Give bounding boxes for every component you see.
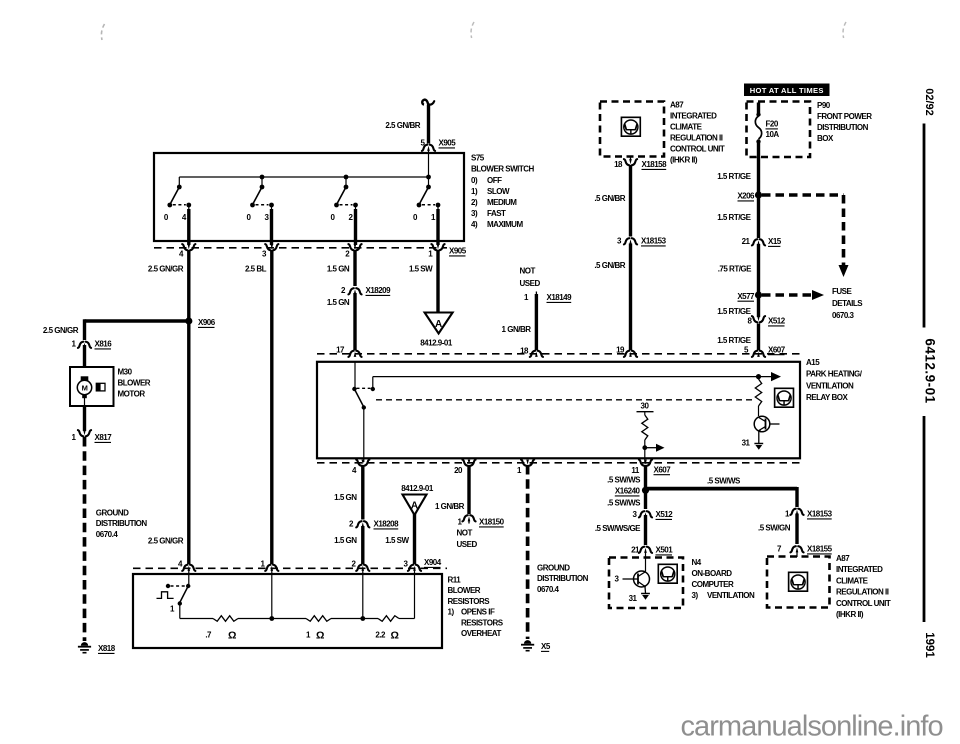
sidebar rule lower [923,416,926,622]
svg-text:8412.9-01: 8412.9-01 [401,484,434,493]
A15 internal wire from contact to transistor arrow [372,377,374,389]
connector A15 pin 20 [462,460,475,466]
A15 top connector row dashed [317,353,800,355]
junction X16240 [642,487,649,494]
svg-text:S75: S75 [471,154,485,163]
blower motor M30 box [70,367,114,406]
svg-text:1.5 GN: 1.5 GN [334,536,357,545]
svg-text:10A: 10A [766,130,780,139]
switch contact unit pin 2 of S75 [331,177,358,245]
svg-text:17: 17 [336,345,345,354]
connector X905 pin 3 [265,244,278,250]
svg-text:INTEGRATED: INTEGRATED [836,565,883,574]
connector X18208 [356,521,369,527]
R11 pin1 wire into rail [271,568,273,619]
svg-text:X816: X816 [95,340,113,349]
svg-text:X607: X607 [654,465,672,474]
svg-text:RELAY BOX: RELAY BOX [806,393,848,402]
svg-text:OVERHEAT: OVERHEAT [461,629,501,638]
A15 relay icon [775,388,794,407]
junction X906 [185,317,192,324]
connector X904 pin 3 [408,565,421,571]
R11 pin3 wire into rail [414,568,416,619]
blower switch S75 box [154,153,464,241]
svg-text:0670.4: 0670.4 [537,585,560,594]
svg-text:1): 1) [471,187,478,196]
svg-text:2.5 GN/GR: 2.5 GN/GR [148,537,184,546]
svg-text:ON-BOARD: ON-BOARD [692,569,733,578]
svg-text:OFF: OFF [487,176,502,185]
svg-text:1.5 SW: 1.5 SW [409,265,433,274]
svg-text:VENTILATION: VENTILATION [707,591,755,600]
on-board computer N4 dashed box [609,558,683,609]
svg-text:FAST: FAST [487,209,506,218]
R11 resistor rail + resistors [180,618,213,620]
svg-text:21: 21 [742,237,751,246]
svg-text:1.5 GN: 1.5 GN [327,265,350,274]
svg-text:X18150: X18150 [479,518,505,527]
connector X904 pin 4 [182,565,195,571]
connector A15 pin 11 / X607 [639,460,652,466]
svg-text:Ω: Ω [316,630,324,642]
svg-text:X577: X577 [737,292,755,301]
svg-text:DISTRIBUTION: DISTRIBUTION [537,574,589,583]
svg-text:BLOWER: BLOWER [118,379,151,388]
connector X905 pin 2 [348,244,361,250]
svg-text:31: 31 [629,594,638,603]
svg-text:.5 SW/GN: .5 SW/GN [758,524,791,533]
ground distribution wire from X817 to X818 [83,437,87,641]
wire 1.5 SW from S75 pin 1 [436,250,439,313]
A15 bottom connector row dashed [317,462,800,464]
connector row X905 dashed line [154,247,447,249]
svg-text:PARK HEATING/: PARK HEATING/ [806,370,863,379]
svg-text:SLOW: SLOW [487,187,510,196]
svg-text:A15: A15 [806,358,820,367]
connector X905 pin 5 (feed) [422,145,435,151]
N4 text block [692,558,755,600]
connector X905 pin 1 [431,244,444,250]
svg-text:.5 SW/WS/GE: .5 SW/WS/GE [595,524,641,533]
svg-text:X18149: X18149 [547,293,573,302]
svg-text:DISTRIBUTION: DISTRIBUTION [817,123,869,132]
motor direction flag [96,383,105,391]
svg-text:NOT: NOT [457,529,473,538]
svg-text:X18158: X18158 [642,160,668,169]
connector X904 pin 1 [265,565,278,571]
svg-text:3): 3) [692,591,699,600]
svg-text:.75 RT/GE: .75 RT/GE [718,265,752,274]
N4 emitter to ground [644,587,647,594]
R11 text block [448,576,504,639]
control unit A87 (top) dashed box [600,102,664,157]
X904 connector row dashed [133,567,447,569]
svg-text:X906: X906 [198,318,216,327]
park heating/ventilation relay box A15 [317,362,800,459]
svg-text:A: A [411,501,418,512]
svg-text:R11: R11 [448,576,462,585]
connector X904 pin 2 [356,565,369,571]
svg-text:0670.4: 0670.4 [96,530,119,539]
label NOT USED (X18150) [457,529,478,550]
svg-text:DISTRIBUTION: DISTRIBUTION [96,519,148,528]
svg-text:02/92: 02/92 [923,88,935,116]
dashed arrow from X577 to fuse details [762,293,812,297]
connector X15 [752,239,765,245]
svg-text:21: 21 [631,546,640,555]
dashed branch from X206 to fuse details [762,193,844,197]
svg-text:MOTOR: MOTOR [118,390,146,399]
svg-text:18: 18 [614,160,623,169]
svg-text:1.5 RT/GE: 1.5 RT/GE [717,307,751,316]
svg-text:X18209: X18209 [366,286,392,295]
svg-text:1 GN/BR: 1 GN/BR [435,502,465,511]
svg-text:X905: X905 [439,139,457,148]
svg-text:8412.9-01: 8412.9-01 [420,339,453,348]
switch contact unit pin 4 of S75 [164,177,191,245]
svg-text:18: 18 [520,346,529,355]
svg-text:P90: P90 [817,101,831,110]
svg-text:COMPUTER: COMPUTER [692,580,735,589]
svg-text:BLOWER SWITCH: BLOWER SWITCH [471,165,535,174]
svg-text:X817: X817 [95,433,113,442]
wire from A15 pin 20 to X18150 (not used) [467,465,470,514]
svg-text:20: 20 [454,466,463,475]
svg-text:30: 30 [641,402,650,411]
svg-text:carmanualsonline.info: carmanualsonline.info [681,710,943,742]
connector X816 [78,342,91,348]
svg-text:VENTILATION: VENTILATION [806,381,854,390]
svg-text:BLOWER: BLOWER [448,586,481,595]
svg-text:.5 GN/BR: .5 GN/BR [594,261,625,270]
svg-text:1.5 RT/GE: 1.5 RT/GE [717,336,751,345]
svg-text:2.5 GN/BR: 2.5 GN/BR [385,121,420,130]
svg-text:2.5 BL: 2.5 BL [245,265,267,274]
svg-text:X5: X5 [541,642,551,651]
R11 pin2 wire into rail [362,568,364,619]
connector X501 [639,547,652,553]
connector X817 [78,430,91,436]
svg-text:REGULATION II: REGULATION II [836,588,889,597]
svg-text:CLIMATE: CLIMATE [670,123,703,132]
blower resistors R11 box [133,574,442,648]
svg-text:X206: X206 [737,192,755,201]
connector X512 (P90 column) [752,316,765,322]
wire 1.5 RT/GE from P90 to A15 pin 5 [757,157,760,238]
P90 text block [817,101,872,143]
off-page triangle A (to 8412.9-01) [425,313,453,334]
svg-text:F20: F20 [766,120,779,129]
A87 top text block [670,101,725,165]
svg-text:0670.3: 0670.3 [832,311,855,320]
svg-text:RESISTORS: RESISTORS [448,597,491,606]
wire branch to blower motor [85,319,191,322]
junction X577 [755,291,762,298]
junction X206 [755,191,762,198]
wire .5 SW/WS right branch down [795,487,798,507]
svg-text:INTEGRATED: INTEGRATED [670,112,717,121]
A15 relay coil [755,379,761,406]
front power distribution box P90 dashed box [747,102,811,158]
svg-text:Ω: Ω [391,630,399,642]
wire 2.5 BL from S75 pin 3 to R11 [270,250,273,564]
svg-text:(IHKR II): (IHKR II) [836,610,864,619]
svg-text:X18153: X18153 [807,510,833,519]
connector X905 pin 4 [182,244,195,250]
svg-text:X18155: X18155 [807,545,833,554]
svg-text:2.5 GN/GR: 2.5 GN/GR [43,326,79,335]
connector A15 pin 18 [530,351,543,357]
svg-text:REGULATION II: REGULATION II [670,134,723,143]
connector X607 pin 5 [752,351,765,357]
svg-text:USED: USED [520,279,541,288]
svg-text:X904: X904 [424,558,442,567]
svg-text:A87: A87 [836,554,850,563]
control unit A87 (bottom) dashed box [767,557,830,608]
connector X18155 [790,546,803,552]
svg-text:X905: X905 [449,247,467,256]
svg-text:1.5 RT/GE: 1.5 RT/GE [717,213,751,222]
stub wire to X18149 (not used) [535,292,537,297]
svg-text:BOX: BOX [817,134,834,143]
svg-text:1.5 GN: 1.5 GN [334,493,357,502]
ground distribution text left [96,509,148,539]
sidebar rule upper [923,124,926,328]
motor M30 symbol [77,376,91,398]
connector X18153 [624,238,637,244]
ground X818 [78,642,91,653]
svg-text:X15: X15 [768,237,782,246]
wire 1.5 GN from S75 pin 2 to A15 pin 17 [353,250,356,286]
S75 text block [471,154,535,230]
A15 output transistor [754,416,770,432]
ground distribution wire from A15 pin 1 to X5 [526,465,530,639]
svg-text:RESISTORS: RESISTORS [461,618,504,627]
wire 1.5 SW to R11 pin 3 [413,514,416,564]
connector A15 pin 4 [356,460,369,466]
ground X5 [521,640,534,651]
svg-text:CONTROL UNIT: CONTROL UNIT [836,599,891,608]
FUSE DETAILS text [832,287,863,320]
switch contact unit pin 1 of S75 [413,177,440,245]
A87 bottom icon [789,572,808,591]
svg-text:0): 0) [471,176,478,185]
svg-text:Ω: Ω [228,630,236,642]
svg-text:A87: A87 [670,101,684,110]
wire to N4 [644,515,647,545]
svg-text:1991: 1991 [923,632,935,658]
svg-text:19: 19 [616,345,625,354]
pin line into S75 [428,150,430,177]
wire 1.5 GN from A15 pin 4 to R11 pin 2 [361,465,364,520]
fuse F20 10A [757,103,760,114]
svg-text:HOT AT ALL TIMES: HOT AT ALL TIMES [750,86,824,95]
svg-text:1.5 RT/GE: 1.5 RT/GE [717,172,751,181]
svg-text:4): 4) [471,220,478,229]
connector A15 pin 17 [348,351,361,357]
R11 thermal element symbol [157,592,174,599]
svg-text:1 GN/BR: 1 GN/BR [502,325,532,334]
svg-text:.5 SW/WS: .5 SW/WS [607,476,641,485]
wire .5 SW/WS from A15 pin 11 [644,465,647,509]
svg-text:11: 11 [631,466,640,475]
A15 relay contact (pin17 to pin4) [354,362,356,389]
svg-text:FUSE: FUSE [832,287,853,296]
svg-text:.5 GN/BR: .5 GN/BR [594,194,625,203]
svg-text:FRONT POWER: FRONT POWER [817,112,872,121]
connector X18209 [348,288,361,294]
ground distribution text right [537,564,589,594]
svg-text:NOT: NOT [520,267,536,276]
connector X18153 (right) [790,509,803,515]
svg-text:X18208: X18208 [374,520,400,529]
HOT AT ALL TIMES banner [744,84,830,97]
connector A15 pin 1 [521,460,534,466]
svg-text:X16240: X16240 [615,487,641,496]
svg-text:GROUND: GROUND [537,564,570,573]
svg-text:3): 3) [471,209,478,218]
svg-text:.5 SW/WS: .5 SW/WS [707,477,741,486]
svg-text:A: A [435,319,442,330]
R11 thermal switch [188,568,190,586]
A87 bottom text block [836,554,891,619]
M30 text [118,368,151,399]
svg-text:2.5 GN/GR: 2.5 GN/GR [148,265,184,274]
wire .5 SW/WS branch right [647,487,797,491]
svg-text:M: M [82,383,88,392]
svg-text:(IHKR II): (IHKR II) [670,156,698,165]
wire 2.5 GN/BR feed to S75 pin 5 [427,105,430,144]
connector X18158 [630,157,632,162]
svg-text:2): 2) [471,198,478,207]
svg-text:X512: X512 [656,510,674,519]
S75 internal bus wire [179,176,428,178]
faint scan mark center [471,22,474,38]
svg-text:1.5 SW: 1.5 SW [385,536,409,545]
connector X512 (N4 column) [639,511,652,517]
A15 text block [806,358,863,402]
svg-text:CLIMATE: CLIMATE [836,576,869,585]
svg-text:6412.9-01: 6412.9-01 [923,338,938,403]
svg-text:X501: X501 [656,546,674,555]
A15 relay coil linkage dashed [376,399,752,401]
switch contact unit pin 3 of S75 [247,177,274,245]
svg-text:DETAILS: DETAILS [832,299,863,308]
svg-text:1.5 GN: 1.5 GN [327,298,350,307]
svg-text:1): 1) [448,608,455,617]
svg-text:USED: USED [457,540,478,549]
wire M30 to X817 [84,398,86,406]
A15 transistor ground 31 [758,431,760,444]
incoming triangle A from 8412.9-01 [403,495,427,516]
faint scan mark right [843,22,846,38]
wire 2.5 GN/GR from S75 pin 4 to R11 [187,250,190,564]
svg-text:MAXIMUM: MAXIMUM [487,220,523,229]
wire .5 GN/BR from A87 to A15 pin 19 [629,165,632,237]
svg-text:GROUND: GROUND [96,509,129,518]
svg-text:MEDIUM: MEDIUM [487,198,517,207]
svg-text:X818: X818 [98,644,116,653]
label NOT USED (X18149) [520,267,541,288]
svg-text:CONTROL UNIT: CONTROL UNIT [670,145,725,154]
svg-text:31: 31 [742,439,751,448]
N4 icon [658,564,677,583]
faint scan mark left [101,24,104,40]
wire continuation hook top of 2.5 GN/BR feed [422,100,428,107]
connector A15 pin 19 [624,351,637,357]
svg-text:.5 SW/WS: .5 SW/WS [607,499,641,508]
svg-text:2.2: 2.2 [375,631,386,640]
svg-text:X18153: X18153 [641,237,667,246]
A87 icon [621,117,640,136]
N4 transistor [634,571,650,587]
svg-text:M30: M30 [118,368,133,377]
svg-text:OPENS IF: OPENS IF [461,608,495,617]
svg-text:X512: X512 [768,317,786,326]
svg-text:N4: N4 [692,558,702,567]
